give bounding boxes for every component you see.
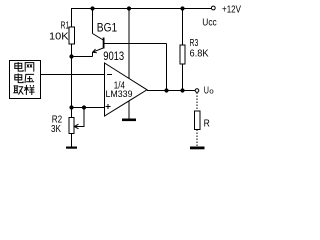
- wire R2 top lead: [71, 108, 73, 118]
- svg-text:6.8K: 6.8K: [190, 49, 209, 60]
- wire emitter riser: [92, 52, 94, 57]
- transistor BG1 emitter arrow: [93, 49, 97, 53]
- svg-text:LM339: LM339: [106, 89, 133, 100]
- resistor R3: [180, 45, 185, 64]
- junction dot rail/V+: [127, 6, 131, 10]
- ground (below load R): [190, 147, 205, 150]
- svg-text:o: o: [209, 88, 214, 95]
- sampling box text 取样: [13, 85, 34, 95]
- sampling box text 电网: [15, 62, 34, 72]
- resistor R2 (pot body): [69, 118, 74, 134]
- wire op-amp V+ lead: [128, 9, 130, 79]
- junction dot node A (R1 bottom / emitter): [69, 54, 73, 58]
- resistor R1: [69, 27, 75, 44]
- svg-text:R: R: [204, 117, 211, 129]
- wire feedback vertical (base to output node): [166, 44, 168, 91]
- wire collector vertical: [92, 9, 94, 34]
- transistor BG1 collector diagonal: [93, 34, 104, 41]
- wire node A vertical (emitter node to + input node): [71, 57, 73, 108]
- ground (below R2): [66, 147, 77, 149]
- transistor Q1 BG1 base bar: [103, 38, 105, 49]
- dotted wire Uo to load R: [196, 93, 198, 112]
- wiper arrow head of R2: [74, 124, 78, 129]
- wire +12V top rail: [71, 8, 211, 10]
- dotted wire load R to ground: [196, 130, 198, 147]
- svg-text:Ucc: Ucc: [202, 17, 216, 28]
- svg-text:+12V: +12V: [222, 4, 241, 15]
- ground (below op-amp): [122, 119, 136, 122]
- junction dot output/feedback: [164, 88, 168, 92]
- junction dot + input / R2 top: [69, 105, 73, 109]
- wire R1 bottom lead: [71, 44, 73, 57]
- op-amp U1 triangle: [105, 63, 148, 116]
- wire op-amp ground lead: [128, 101, 130, 119]
- svg-text:U: U: [204, 85, 209, 96]
- op-amp minus marker: [107, 74, 112, 76]
- wire sampling box to - input: [41, 74, 105, 76]
- sampling box text 电压: [15, 74, 34, 84]
- wire R3 bottom lead: [182, 64, 184, 91]
- terminal +12V: [211, 6, 215, 10]
- sampling box outline: [10, 61, 41, 99]
- wire R2 bottom lead: [71, 134, 73, 147]
- junction dot rail/collector: [90, 6, 94, 10]
- junction dot wiper tie: [82, 105, 86, 109]
- wire R3 top lead: [182, 9, 184, 46]
- svg-text:9013: 9013: [103, 49, 124, 63]
- wire R2 wiper: [75, 108, 85, 127]
- op-amp plus marker: [106, 104, 111, 109]
- svg-text:10K: 10K: [49, 32, 69, 43]
- wire output line: [147, 90, 195, 92]
- svg-text:3K: 3K: [51, 124, 61, 135]
- wire + input: [72, 107, 105, 109]
- svg-text:BG1: BG1: [97, 22, 117, 34]
- junction dot output/R3: [180, 88, 184, 92]
- terminal Uo: [195, 89, 199, 93]
- transistor BG1 emitter diagonal: [93, 48, 104, 52]
- svg-text:R1: R1: [61, 21, 70, 32]
- svg-text:R3: R3: [190, 38, 199, 49]
- wire base lead: [105, 43, 167, 45]
- junction dot rail/R3: [180, 6, 184, 10]
- resistor R (load): [194, 111, 200, 130]
- wire emitter horizontal: [72, 56, 93, 58]
- wire R1 top lead: [71, 9, 73, 28]
